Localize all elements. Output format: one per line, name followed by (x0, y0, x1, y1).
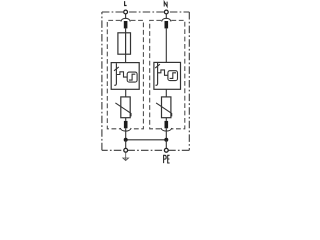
thermal disconnector (L top, filled) (124, 21, 128, 28)
terminal L (124, 10, 128, 14)
trigger unit box (U1) (127, 72, 137, 82)
varistor RV1 (L path) (115, 97, 131, 118)
wire: fuse to spark gap box (125, 54, 127, 62)
wire: equipotential bus between junctions (126, 139, 167, 141)
spark gap electrode (U2) (156, 63, 158, 85)
triggered spark gap U2 (N path) box (154, 62, 181, 89)
wire: N terminal to disconnector (165, 14, 167, 19)
disconnector contact arc (N bottom) (161, 128, 172, 131)
junction (N to bus) (164, 138, 168, 142)
terminal PE (bottom right) (164, 148, 168, 152)
wire: junction to earth terminal (125, 140, 127, 149)
enclosure outline (dash-dot device boundary) (102, 12, 189, 150)
trigger unit pulse symbol (U1) (129, 74, 135, 80)
thermal disconnector (N bottom, filled) (165, 121, 169, 128)
disconnector contact arc (N top) (162, 18, 171, 21)
varistor RV2 (N path) (156, 97, 172, 118)
fuse F1 (backup fuse, L path) (118, 33, 131, 54)
triggered spark gap U1 (L path) box (111, 63, 139, 90)
wire: disconnector to fuse (125, 28, 127, 32)
wire: varistor to bottom disconnector (L) (125, 118, 127, 121)
wire: disconnector to junction (N) (165, 128, 167, 140)
spark gap breakdown slash (U2) (155, 64, 160, 68)
node PE label (164, 155, 170, 163)
wire: disconnector to junction (L) (125, 128, 127, 140)
terminal N (164, 10, 168, 14)
trigger unit pulse symbol (U2) (170, 73, 176, 79)
thermal disconnector (L bottom, filled) (124, 121, 128, 128)
node L label (125, 1, 127, 5)
wire: spark gap box to varistor (N) (165, 89, 167, 97)
ground (earth arrow symbol) (123, 153, 129, 161)
trigger connection step (U2) (158, 70, 168, 75)
spark gap electrode (U1) (114, 63, 116, 85)
wire: varistor to bottom disconnector (N) (165, 118, 167, 121)
trigger connection step (U1) (116, 72, 127, 77)
protection path 1 inner enclosure (dashed box, L) (107, 20, 143, 128)
thermal disconnector (N top, filled) (165, 21, 169, 28)
trigger unit box (U2) (168, 71, 178, 81)
terminal earth (bottom left) (124, 148, 128, 152)
wire: junction to PE terminal (165, 140, 167, 149)
node N label (164, 2, 167, 7)
junction (L to bus) (124, 138, 128, 142)
protection path 2 inner enclosure (dashed box, N) (150, 20, 185, 128)
disconnector contact arc (L top) (121, 18, 130, 21)
wire: spark gap box to varistor (L) (125, 89, 127, 97)
spark gap breakdown slash (U1) (114, 67, 119, 71)
wire: disconnector to spark gap box (N) (165, 28, 167, 62)
disconnector contact arc (L bottom) (120, 128, 131, 131)
wire: L terminal to disconnector (125, 14, 127, 19)
